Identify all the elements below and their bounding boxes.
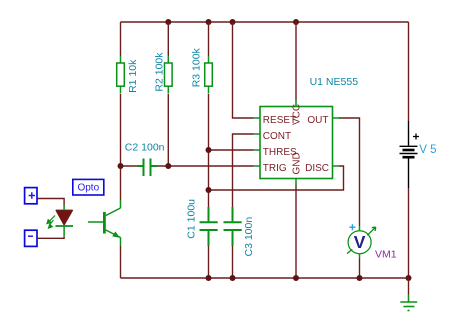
voltmeter VM1	[347, 224, 376, 258]
wire: + terminal to LED anode	[37, 199, 64, 206]
svg-text:R2 100k: R2 100k	[154, 52, 166, 92]
junction dot rail at C1	[206, 275, 212, 281]
junction dot on rail at RESET drop	[230, 19, 236, 25]
junction dot C2 / R1	[118, 163, 124, 169]
junction dot DISC loop / R3	[206, 187, 212, 193]
wire: LED cathode to - terminal	[37, 237, 64, 239]
wire: battery top drop from rail	[408, 22, 410, 121]
optocoupler terminal + box	[25, 188, 37, 204]
junction dot rail at GND pin	[293, 275, 299, 281]
resistor R1	[117, 56, 125, 94]
junction dot on rail at R2	[165, 19, 171, 25]
svg-text:V 5: V 5	[419, 144, 436, 156]
svg-text:CONT: CONT	[263, 131, 291, 142]
wire: R3 branch (rail to R3, R3 down to C1 and THRES/DISC junctions)	[208, 22, 210, 207]
wire: C1 to ground rail	[208, 246, 210, 278]
LED of optocoupler	[56, 206, 74, 237]
wire: OUT to voltmeter	[339, 118, 360, 226]
wire: VCC drop (rail to VCC pin)	[295, 22, 297, 100]
svg-text:V: V	[354, 232, 366, 252]
junction dot rail at battery/ground	[406, 275, 412, 281]
wire: CONT line (pin left then down to C3)	[233, 134, 254, 207]
svg-text:GND: GND	[291, 152, 302, 174]
svg-text:C2 100n: C2 100n	[125, 141, 165, 153]
transistor Q (opto phototransistor)	[88, 200, 121, 247]
wire: top VCC rail	[121, 21, 409, 23]
wire: THRES line (pin left to R3 branch)	[209, 149, 254, 151]
label Opto (boxed)	[73, 179, 104, 195]
svg-text:Opto: Opto	[77, 182, 99, 193]
wire: GND pin down to ground rail	[295, 185, 297, 278]
battery V (5 V source)	[400, 121, 418, 188]
IC U1 NE555 (timer) box with pin stubs	[254, 100, 340, 185]
wire: C2 left lead to R1 branch	[121, 165, 138, 167]
svg-text:R1 10k: R1 10k	[127, 59, 139, 93]
junction dot on rail at VCC drop	[293, 19, 299, 25]
capacitor C3	[224, 207, 242, 246]
ground	[400, 295, 417, 311]
battery plus sign	[413, 134, 419, 140]
voltmeter plus sign	[349, 224, 355, 230]
LED light arrows	[47, 216, 55, 229]
svg-text:U1 NE555: U1 NE555	[310, 76, 359, 88]
svg-text:VM1: VM1	[375, 249, 397, 261]
optocoupler terminal - box	[25, 230, 37, 246]
wire: voltmeter to ground rail	[359, 259, 361, 279]
wire: R2 branch (rail to R2, R2 to TRIG line)	[167, 22, 169, 166]
svg-text:C1 100u: C1 100u	[185, 199, 197, 239]
resistor R2	[165, 56, 173, 94]
junction dot on rail at R3	[206, 19, 212, 25]
svg-text:VCC: VCC	[291, 104, 302, 125]
capacitor C2	[138, 159, 158, 177]
wire: C3 to ground rail	[232, 246, 234, 278]
svg-text:OUT: OUT	[307, 115, 328, 126]
wire: stub to ground symbol	[408, 278, 410, 295]
wire: bottom ground rail	[121, 277, 409, 279]
svg-text:TRIG: TRIG	[263, 163, 287, 174]
junction dot THRES / R3	[206, 147, 212, 153]
wire: RESET drop (rail to RESET pin)	[233, 22, 254, 118]
wire: battery to ground rail	[408, 188, 410, 278]
svg-text:DISC: DISC	[305, 163, 329, 174]
wire: TRIG line (C2 right to TRIG pin)	[157, 165, 254, 167]
voltmeter minus tick	[347, 249, 352, 253]
wire: DISC loop (pin right, down, left to R3 branch)	[209, 166, 344, 190]
voltmeter arrow	[367, 227, 376, 235]
svg-text:R3 100k: R3 100k	[190, 47, 202, 87]
wire: emitter to ground rail	[120, 246, 122, 278]
junction dot rail at voltmeter	[357, 275, 363, 281]
resistor R3	[205, 56, 213, 94]
junction dot rail at C3	[230, 275, 236, 281]
capacitor C1	[200, 207, 218, 246]
svg-text:C3 100n: C3 100n	[243, 217, 255, 257]
junction dot C2 / R2 / TRIG	[165, 163, 171, 169]
wire: R1 branch (rail to R1, R1 to collector)	[120, 22, 122, 200]
